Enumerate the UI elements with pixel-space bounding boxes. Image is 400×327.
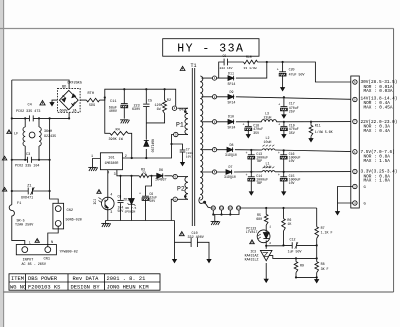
node CN3 pin 7: [353, 119, 357, 123]
svg-text:+: +: [278, 152, 280, 156]
wire feedback ground line: [296, 277, 317, 279]
node CN3 pin 1: [353, 150, 357, 154]
svg-text:50V: 50V: [118, 209, 124, 213]
node CN3 pin 3: [353, 184, 357, 188]
svg-text:DBS POWER: DBS POWER: [28, 276, 58, 282]
svg-text:ZD1: ZD1: [123, 197, 129, 201]
svg-text:D9: D9: [230, 90, 234, 94]
svg-text:3: 3: [110, 210, 112, 214]
svg-text:1.1K F: 1.1K F: [321, 231, 333, 235]
shunt regulator U3 KA431: [245, 243, 317, 282]
svg-text:+: +: [278, 104, 280, 108]
ground for U1 pin1: [88, 166, 96, 168]
svg-text:ITEM: ITEM: [11, 276, 24, 282]
svg-text:10: 10: [212, 207, 216, 210]
svg-text:+: +: [278, 174, 280, 178]
wire AC top line: [12, 80, 69, 88]
resistor R11: [309, 121, 333, 142]
capacitor C17: [278, 96, 299, 118]
fuse F1: [9, 202, 34, 228]
svg-text:+: +: [246, 152, 248, 156]
svg-text:1/4W 5.6K: 1/4W 5.6K: [315, 130, 333, 134]
svg-text:MAX : 0.4A: MAX : 0.4A: [364, 129, 391, 134]
thermistor RTH: [80, 92, 105, 108]
transformer winding P2: [173, 174, 188, 201]
svg-text:3: 3: [114, 173, 116, 177]
wire secondary ground pins: [211, 210, 239, 225]
svg-text:D7: D7: [229, 165, 233, 169]
capacitor C6: [139, 175, 157, 221]
svg-text:DRF2GKG: DRF2GKG: [68, 82, 82, 86]
node secondary pin 13: [228, 206, 232, 210]
svg-text:P1: P1: [176, 121, 184, 128]
wire frame top border: [0, 28, 394, 30]
svg-text:922435: 922435: [44, 135, 56, 139]
svg-text:25V: 25V: [289, 110, 295, 114]
svg-text:400V: 400V: [109, 110, 118, 114]
svg-text:1N4937: 1N4937: [155, 178, 167, 182]
node CN3 pin 5: [353, 97, 357, 101]
svg-text:647: 647: [179, 107, 185, 111]
node output voltage labels: [361, 80, 398, 207]
diode D10: [228, 115, 236, 130]
capacitor C7: [170, 143, 193, 166]
wire page left edge band: [0, 0, 3, 327]
capacitor C15: [278, 172, 301, 195]
svg-text:T2AH 250V: T2AH 250V: [15, 224, 34, 228]
wire B+ rail: [105, 89, 176, 106]
resistor R4: [104, 96, 133, 159]
svg-text:1: 1: [269, 224, 271, 228]
svg-text:TBP: TBP: [256, 181, 262, 185]
svg-text:10uH: 10uH: [264, 165, 272, 169]
resistor R8: [315, 257, 329, 278]
svg-text:390K 1W: 390K 1W: [109, 138, 124, 142]
diode D7: [224, 165, 236, 179]
svg-text:MAX : 1.5A: MAX : 1.5A: [364, 159, 391, 164]
svg-text:1uF 50V: 1uF 50V: [288, 250, 302, 254]
connector CN1: [16, 239, 78, 267]
svg-text:+: +: [277, 69, 279, 73]
optocoupler U2 LED side PC123: [246, 224, 272, 244]
capacitor C16: [278, 149, 301, 173]
transformer T1 core: [180, 63, 196, 226]
svg-text:36mH: 36mH: [44, 130, 52, 134]
resistor R3: [139, 169, 149, 178]
svg-text:C7: C7: [186, 147, 190, 151]
svg-text:SF14: SF14: [228, 82, 236, 86]
node title HY-33A: [163, 39, 259, 57]
svg-text:31DQ10: 31DQ10: [225, 153, 237, 157]
svg-text:T1: T1: [191, 63, 197, 69]
capacitor C3: [2, 153, 50, 168]
svg-text:D6: D6: [159, 169, 163, 173]
svg-text:LTV817: LTV817: [246, 230, 258, 234]
svg-text:+: +: [139, 192, 141, 196]
svg-text:33 1/4W: 33 1/4W: [244, 66, 257, 70]
transformer winding P1: [172, 106, 188, 137]
ground chassis right of C10: [207, 259, 211, 262]
capacitor C10 Y-cap: [175, 221, 210, 260]
svg-text:DESIGN BY: DESIGN BY: [71, 284, 101, 290]
node CN3 pin 2: [353, 169, 357, 173]
svg-text:G: G: [364, 186, 367, 190]
resistor R10: [244, 55, 258, 70]
wire primary ground bus: [106, 220, 175, 222]
node secondary pin 5: [212, 170, 216, 174]
svg-text:CN1: CN1: [44, 258, 50, 262]
varistor Z1: [2, 184, 50, 200]
wire rail5 3.3V: [217, 171, 353, 173]
svg-text:BD: BD: [62, 85, 66, 89]
wire frame bottom border: [4, 291, 394, 293]
svg-text:Z1: Z1: [27, 184, 31, 188]
capacitor C14: [246, 172, 269, 195]
diode D5 clamp: [144, 123, 155, 159]
svg-text:CN2: CN2: [67, 209, 73, 213]
node secondary pin 2: [212, 95, 216, 99]
svg-text:INPUT: INPUT: [23, 258, 35, 262]
capacitor C19: [278, 121, 299, 138]
svg-text:R4: R4: [116, 128, 120, 132]
capacitor C20: [277, 61, 305, 91]
svg-text:+: +: [243, 123, 245, 127]
svg-text:MAX : 0.45A: MAX : 0.45A: [364, 105, 393, 110]
svg-text:47uF 50V: 47uF 50V: [289, 72, 305, 76]
wire rail2 14V: [217, 97, 353, 100]
connector CN2: [48, 203, 82, 246]
svg-text:HY - 33A: HY - 33A: [177, 43, 244, 56]
svg-text:N: N: [51, 241, 53, 245]
optocoupler U2 transistor: [93, 190, 114, 214]
capacitor C13: [246, 149, 269, 173]
node title block table: [9, 274, 160, 291]
svg-text:D11: D11: [228, 71, 234, 75]
svg-text:101: 101: [108, 157, 114, 161]
wire CN3 pins 3-4 ground: [336, 187, 353, 215]
svg-text:MAX : 1.0A: MAX : 1.0A: [364, 179, 391, 184]
capacitor C8: [118, 175, 124, 221]
capacitor C9 snubber: [220, 54, 233, 70]
wire secondary bottom hook: [199, 197, 211, 208]
node CN3 pin 6: [353, 80, 357, 84]
ground primary bus: [101, 221, 110, 228]
svg-text:10V: 10V: [289, 181, 295, 185]
resistor R2: [146, 88, 171, 123]
svg-text:G: G: [364, 203, 367, 207]
svg-text:630V: 630V: [132, 108, 141, 112]
svg-text:R11: R11: [315, 124, 321, 128]
svg-text:14: 14: [237, 207, 241, 210]
svg-text:LF: LF: [14, 133, 18, 137]
svg-text:MAX : 0.03A: MAX : 0.03A: [364, 89, 393, 94]
svg-text:2001 . 8. 21: 2001 . 8. 21: [107, 276, 146, 282]
node secondary pin 11: [219, 206, 223, 210]
ground chassis at bridge minus: [50, 100, 57, 106]
resistor R9: [294, 257, 304, 278]
wire frame right border: [393, 29, 395, 293]
svg-text:1M0380R: 1M0380R: [104, 161, 118, 165]
svg-text:D10: D10: [228, 115, 234, 119]
wire secondary taps: [202, 78, 213, 172]
resistor R6: [282, 207, 292, 247]
wire rail3 22V: [217, 121, 353, 123]
diode D9: [228, 90, 236, 105]
svg-text:C12: C12: [290, 238, 296, 242]
svg-text:C3: C3: [26, 153, 30, 157]
svg-text:F200103 KS: F200103 KS: [28, 284, 60, 290]
svg-text:13: 13: [229, 207, 233, 210]
wire drain line pin2: [123, 135, 174, 159]
svg-text:L: L: [29, 242, 31, 246]
svg-text:+: +: [246, 174, 248, 178]
svg-text:680: 680: [256, 217, 262, 221]
inductor L3: [262, 112, 277, 122]
svg-text:C17: C17: [289, 102, 295, 106]
ground feedback: [315, 280, 319, 283]
svg-text:35V: 35V: [253, 131, 259, 135]
wire AC line L vertical: [12, 80, 25, 247]
svg-text:C9: C9: [223, 54, 227, 58]
transformer secondary winding: [200, 76, 212, 200]
node CN3 pin 4: [353, 201, 357, 205]
svg-text:22: 22: [142, 171, 146, 175]
resistor R5: [256, 207, 268, 229]
svg-text:10V: 10V: [289, 159, 295, 163]
svg-text:+: +: [278, 123, 280, 127]
svg-text:PCO2 335 104: PCO2 335 104: [15, 164, 39, 168]
node secondary pin 1: [212, 76, 216, 80]
svg-text:1W: 1W: [157, 108, 162, 112]
diode D8: [225, 143, 237, 157]
svg-text:11: 11: [220, 207, 224, 210]
connector CN3 output: [351, 76, 360, 208]
svg-text:YFW800-02: YFW800-02: [60, 250, 78, 254]
svg-text:5D9: 5D9: [89, 104, 95, 108]
wire AC line N vertical: [50, 118, 59, 205]
svg-text:C4: C4: [28, 104, 32, 108]
svg-text:RGF1200: RGF1200: [151, 139, 155, 152]
svg-text:KA431LZ: KA431LZ: [245, 257, 259, 261]
svg-text:JONG HEUN KIM: JONG HEUN KIM: [107, 284, 149, 290]
svg-text:P2: P2: [177, 185, 185, 192]
svg-text:SF24: SF24: [228, 126, 236, 130]
capacitor C5: [132, 88, 152, 123]
capacitor C11: [109, 88, 130, 123]
svg-text:R8: R8: [321, 262, 325, 266]
svg-text:D8: D8: [230, 143, 234, 147]
wire rail1 30V: [217, 62, 353, 82]
svg-text:F1: F1: [17, 202, 21, 206]
svg-text:WG NO: WG NO: [10, 284, 26, 290]
svg-text:RTH: RTH: [88, 92, 94, 96]
svg-text:R7: R7: [321, 226, 325, 230]
node secondary pin 4: [212, 148, 216, 152]
svg-text:10uH: 10uH: [264, 140, 272, 144]
svg-text:6VD471: 6VD471: [21, 197, 33, 201]
capacitor C4: [11, 101, 70, 122]
wire IC U1 pin1 to ground: [93, 159, 101, 168]
node secondary pin 10: [211, 206, 215, 210]
svg-text:TBP: TBP: [256, 159, 262, 163]
diode D6: [155, 169, 167, 182]
svg-text:31DQ10: 31DQ10: [224, 175, 236, 179]
wire feedback line from pin14: [241, 207, 317, 209]
svg-text:50N6-020: 50N6-020: [66, 218, 82, 222]
svg-text:R10: R10: [246, 55, 252, 59]
svg-text:C20: C20: [289, 67, 295, 71]
capacitor C12: [266, 238, 317, 254]
resistor R7: [315, 208, 333, 258]
svg-text:1PD82N: 1PD82N: [125, 211, 136, 214]
line filter LF1: [7, 117, 56, 161]
svg-text:222 1KV: 222 1KV: [220, 66, 233, 70]
diode D11: [228, 71, 236, 85]
node secondary pin 3: [212, 120, 216, 124]
bridge rectifier BD1: [58, 82, 82, 114]
svg-text:Rev DATA: Rev DATA: [73, 276, 100, 282]
svg-text:1K: 1K: [287, 222, 291, 226]
capacitor C18: [243, 121, 264, 138]
svg-text:IC2: IC2: [93, 199, 97, 205]
wire rail4 7.5V: [217, 150, 353, 152]
svg-text:2: 2: [269, 241, 271, 245]
svg-text:22uH: 22uH: [264, 115, 272, 119]
node secondary pin 14: [237, 206, 241, 210]
zener ZD1: [123, 175, 136, 221]
wire P2 pin8 to bus: [171, 199, 173, 220]
inductor L2: [262, 136, 275, 150]
wire U1 pin3 Vcc line: [117, 170, 173, 177]
inductor L1: [262, 161, 275, 171]
svg-text:35V: 35V: [289, 131, 295, 135]
svg-text:332 400V: 332 400V: [188, 236, 205, 240]
svg-text:SF14: SF14: [228, 100, 236, 104]
svg-text:C5: C5: [148, 100, 152, 104]
IC U1 1M0380R: [91, 153, 127, 177]
svg-text:4: 4: [110, 193, 112, 197]
ground chassis left of C10: [173, 259, 177, 262]
svg-text:3K F: 3K F: [321, 267, 329, 271]
svg-text:PCO2 335 473: PCO2 335 473: [16, 110, 40, 114]
svg-text:R2: R2: [167, 99, 171, 103]
svg-text:50V: 50V: [149, 199, 155, 203]
svg-text:C11: C11: [110, 100, 116, 104]
svg-text:C8: C8: [118, 195, 122, 199]
svg-text:AC 85 - 265V: AC 85 - 265V: [22, 263, 47, 267]
svg-text:600V: 600V: [60, 110, 69, 114]
svg-text:R9: R9: [300, 263, 304, 267]
wire U1 pin4 line: [107, 170, 109, 221]
